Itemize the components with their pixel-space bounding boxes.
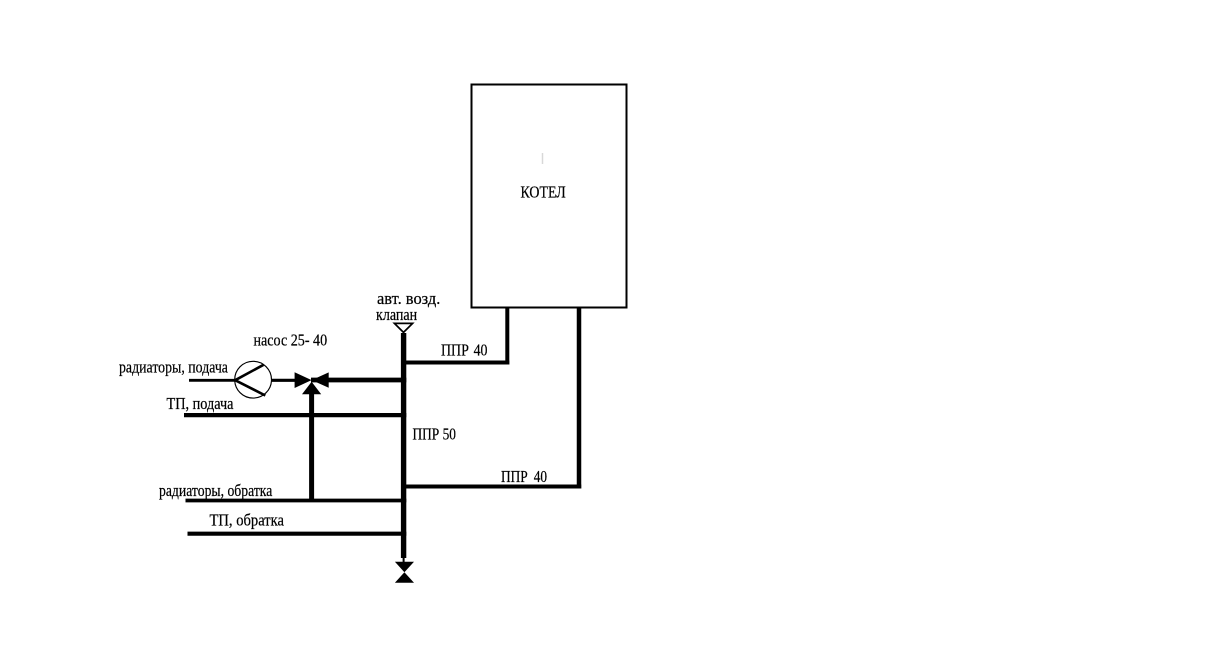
svg-text:ППР 40: ППР 40 — [441, 341, 488, 360]
svg-text:насос 25- 40: насос 25- 40 — [254, 331, 328, 349]
boiler rectangle — [472, 85, 627, 308]
wire: радиаторы подача segment pump to valve — [270, 379, 296, 382]
flow arrow up into valve — [302, 382, 321, 394]
wire: ППР40 horizontal supply pipe (riser to boiler) — [402, 361, 510, 365]
wire: branch vertical from valve down to radiator return — [309, 392, 314, 500]
air valve symbol — [394, 323, 412, 332]
svg-text:КОТЕЛ: КОТЕЛ — [521, 183, 567, 202]
wire: радиаторы обратка line — [186, 499, 407, 503]
wire: радиаторы подача thin segment left of pump — [189, 379, 236, 382]
svg-text:ППР 50: ППР 50 — [413, 425, 457, 444]
wire: thin stub to bottom valve — [403, 556, 405, 563]
svg-text:ТП, обратка: ТП, обратка — [210, 512, 285, 530]
wire: boiler right pipe down — [577, 307, 582, 489]
svg-text:радиаторы, обратка: радиаторы, обратка — [159, 482, 272, 501]
svg-text:радиаторы, подача: радиаторы, подача — [119, 358, 228, 377]
wire: ППР40 horizontal return pipe — [402, 485, 582, 489]
valve (bowtie) on radiator supply line — [295, 372, 329, 388]
wire: ТП обратка line — [188, 532, 407, 536]
svg-text:ТП, подача: ТП, подача — [167, 395, 234, 413]
bottom drain valve (bowtie vertical) — [395, 562, 414, 583]
wire: pipe from boiler left stub down to ППР40 supply line — [505, 307, 509, 365]
faint scan artifact inside boiler — [542, 153, 544, 164]
wire: main vertical riser ППР50 — [401, 333, 406, 558]
svg-text:клапан: клапан — [376, 306, 417, 325]
wire: ТП подача line — [184, 413, 406, 417]
svg-text:ППР 40: ППР 40 — [501, 467, 547, 486]
wire: радиаторы подача thick segment valve to riser — [311, 378, 406, 383]
pump symbol — [235, 361, 272, 398]
